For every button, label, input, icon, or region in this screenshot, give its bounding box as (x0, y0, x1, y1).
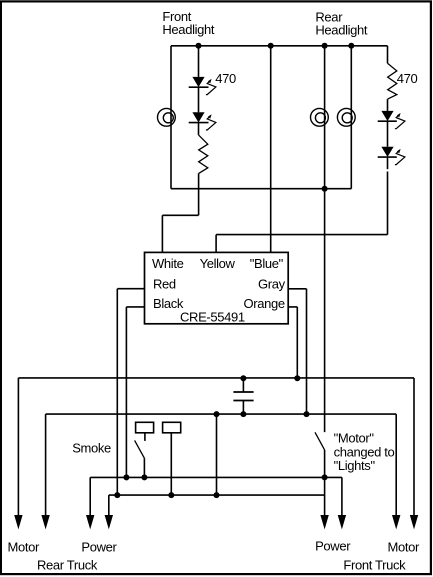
svg-text:Headlight: Headlight (315, 22, 368, 37)
terminal power rear 1 (86, 515, 94, 529)
node black join (123, 474, 129, 480)
label Gray (258, 277, 286, 292)
svg-text:changed to: changed to (334, 444, 395, 459)
label Motor front (388, 539, 421, 554)
wire resistor to white pin (162, 173, 198, 252)
label Front Truck (343, 557, 406, 572)
decoder U1 CRE-55491 box (145, 252, 289, 323)
wire lights switch feed (324, 189, 326, 432)
smoke unit element E2 (163, 422, 181, 433)
wire bus C left drop (89, 477, 91, 523)
wire rear chain top (387, 46, 389, 64)
label Orange (244, 296, 285, 311)
node link top (214, 411, 220, 417)
label CRE-55491 (180, 309, 245, 324)
wire between D1 D2 (198, 87, 200, 112)
lamp L3 rear bulb (337, 108, 355, 126)
resistor R2 470 (388, 63, 397, 99)
switch S1 smoke arm (135, 440, 145, 458)
lamp L1 front bulb (158, 108, 176, 126)
LED D2 (189, 112, 216, 130)
wire top bus (171, 45, 388, 47)
svg-text:White: White (152, 256, 184, 271)
node red join (114, 492, 120, 498)
label Blue (250, 256, 284, 271)
wire E1 stub (144, 433, 146, 441)
svg-text:470: 470 (215, 71, 236, 86)
node lamp return (322, 186, 328, 192)
wire E2 drop (170, 433, 172, 495)
wire bus A y377 (18, 377, 414, 379)
wire front lamp drop (170, 46, 172, 189)
svg-text:Motor: Motor (388, 539, 421, 554)
terminal motor front 2 (410, 515, 418, 529)
node cap bottom (240, 411, 246, 417)
LED D4 (378, 147, 405, 165)
svg-text:"Motor": "Motor" (334, 431, 375, 446)
label Red (153, 277, 176, 292)
wire resistor to D3 (387, 99, 389, 111)
wire bus C y477 (90, 476, 342, 478)
svg-text:Motor: Motor (8, 539, 41, 554)
wire bus C right drop (341, 477, 343, 523)
label 470 rear (397, 71, 418, 86)
wire D2 to resistor (198, 123, 200, 135)
label Power front (315, 539, 351, 554)
node top bus x324 (322, 43, 328, 49)
node smoke switch join (141, 474, 147, 480)
wire yellow link (216, 235, 387, 253)
svg-text:"Lights": "Lights" (334, 458, 376, 473)
node top bus x270 (268, 43, 274, 49)
wire bus D y494 (109, 494, 325, 496)
wire blue riser (270, 46, 272, 253)
node link bottom (214, 492, 220, 498)
wire orange pin (288, 307, 297, 378)
LED D3 (378, 111, 405, 129)
svg-text:CRE-55491: CRE-55491 (180, 309, 245, 324)
terminal motor rear 1 (14, 515, 22, 529)
wire red pin (117, 289, 144, 495)
wire front LED chain top (198, 46, 200, 77)
label Rear Headlight (315, 9, 368, 37)
label Rear Truck (37, 557, 98, 572)
label Power rear (81, 539, 117, 554)
wire S2 down (324, 450, 326, 524)
terminal power front 2 (338, 515, 346, 529)
wire S1 to bus C (143, 458, 145, 477)
wire rear lamp drop 1 (324, 46, 326, 189)
wire link bus B to bus D (216, 414, 218, 495)
svg-text:Gray: Gray (258, 277, 286, 292)
label Motor changed to Lights (334, 431, 395, 474)
svg-text:470: 470 (397, 71, 418, 86)
label Yellow (200, 256, 236, 271)
terminal motor front 1 (392, 515, 400, 529)
switch S2 lights arm (315, 432, 325, 450)
node lights switch join (322, 474, 328, 480)
wire bus A left drop (17, 378, 19, 524)
terminal power rear 2 (105, 515, 113, 529)
lamp L2 rear bulb (311, 108, 329, 126)
svg-text:Power: Power (81, 539, 117, 554)
node gray join (304, 411, 310, 417)
capacitor C1 (233, 378, 253, 414)
wire bus B left drop (45, 414, 47, 523)
wire rear lamp drop 2 (350, 46, 352, 189)
label Motor rear (8, 539, 41, 554)
wire D4 down with gap (387, 157, 389, 235)
wire gray pin (288, 289, 306, 414)
svg-text:Red: Red (153, 277, 176, 292)
wire lamp return bus (171, 188, 351, 190)
node top bus x351 (348, 43, 354, 49)
label Smoke (72, 441, 111, 456)
svg-text:Smoke: Smoke (72, 441, 111, 456)
label White (152, 256, 184, 271)
node orange join (294, 375, 300, 381)
smoke unit element E1 (136, 422, 154, 433)
terminal arrows (14, 515, 418, 529)
LED D1 (189, 77, 216, 95)
svg-text:Orange: Orange (244, 296, 285, 311)
svg-text:"Blue": "Blue" (250, 256, 284, 271)
wire bus B right drop (395, 414, 397, 523)
wire black pin (126, 307, 144, 478)
terminal power front 1 (320, 515, 328, 529)
label Front Headlight (162, 9, 215, 37)
terminal motor rear 2 (41, 515, 49, 529)
node top bus x198 (196, 43, 202, 49)
resistor R1 470 (199, 135, 208, 174)
svg-text:Rear Truck: Rear Truck (37, 557, 98, 572)
wire bus A right drop (413, 378, 415, 524)
svg-text:Headlight: Headlight (162, 22, 215, 37)
label 470 front (215, 71, 236, 86)
wire between D3 D4 (387, 121, 389, 147)
svg-text:Power: Power (315, 539, 351, 554)
wire bus D left drop (108, 495, 110, 523)
label Black (153, 296, 184, 311)
svg-text:Front Truck: Front Truck (343, 557, 406, 572)
node E2 join (168, 492, 174, 498)
node cap top (240, 375, 246, 381)
svg-text:Yellow: Yellow (200, 256, 236, 271)
wire bus B y413 (46, 413, 397, 415)
